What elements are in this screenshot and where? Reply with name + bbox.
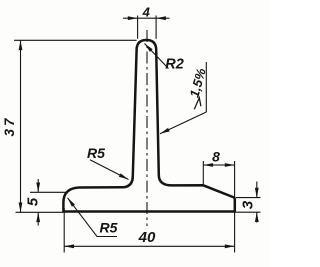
leader R5 upper [90,160,129,180]
centerline [146,30,148,226]
dim 37: bottom extension line [16,211,64,213]
svg-text:R5: R5 [100,220,118,236]
T-profile outline [63,40,234,212]
dim 37: dimension line vertical with arrows [20,40,22,125]
dim 5: top extension line [30,191,68,193]
dim 3: upper arrow outside [256,182,258,198]
dim 5: lower arrow outside [37,212,39,225]
svg-text:4: 4 [142,5,151,20]
dim 40: dimension line [64,245,149,247]
dim 4: extension line right [155,16,157,39]
leader R2 [145,44,169,69]
dim 8: dimension line [203,164,219,166]
dim 40: right extension line (shared with dim 8) [234,161,236,253]
svg-text:3: 3 [240,200,257,209]
slope symbol [194,98,201,110]
dim 37: top extension line [14,39,137,41]
svg-text:R2: R2 [165,57,184,73]
svg-text:37: 37 [2,115,17,136]
dim 4: extension line left [137,16,139,39]
svg-text:R5: R5 [87,145,105,161]
svg-text:1,5%: 1,5% [187,66,209,99]
svg-text:5: 5 [25,197,42,206]
dim 3: lower arrow outside [256,212,258,222]
dim 3: top extension line [236,197,261,199]
svg-text:40: 40 [138,229,156,246]
dim 8: left extension line [202,161,204,184]
leader R5 lower [68,198,118,237]
dim 4: dimension line with outside arrows [123,17,138,19]
dim 40: left extension line [63,208,65,253]
svg-text:8: 8 [212,149,220,165]
slope leader riser [205,62,207,112]
dim 3: bottom extension line [236,211,261,213]
slope leader arrow to stem [160,112,206,134]
dim 5: upper arrow outside [37,179,39,192]
